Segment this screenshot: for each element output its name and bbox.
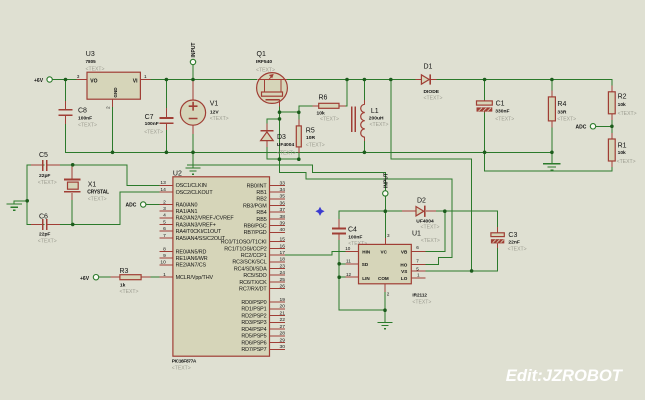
svg-text:CRYSTAL: CRYSTAL: [87, 190, 109, 196]
pin 6 RA4/T0CKI/C1OUT: [159, 226, 222, 235]
svg-text:16: 16: [280, 243, 286, 249]
svg-text:RD6/PSP6: RD6/PSP6: [241, 341, 266, 347]
pin 35 RB2: [256, 194, 285, 203]
svg-text:RB2: RB2: [256, 197, 266, 203]
wire C8 bottom to ground rail: [66, 124, 113, 152]
inductor L1 200uH: [352, 100, 389, 141]
svg-text:14: 14: [160, 187, 166, 193]
svg-text:D2: D2: [417, 198, 426, 205]
junction at (166.4,152.3): [165, 151, 169, 155]
svg-text:RC4/SDI/SDA: RC4/SDI/SDA: [234, 266, 267, 272]
svg-text:<TEXT>: <TEXT>: [320, 117, 339, 123]
pin 36 RB3/PGM: [243, 200, 285, 209]
svg-text:RB6/PGC: RB6/PGC: [244, 224, 267, 230]
junction at (390.8,79.5): [389, 78, 393, 82]
wire R4 top lead: [551, 80, 553, 97]
svg-text:LIN: LIN: [362, 276, 370, 281]
wire C7 bottom: [165, 129, 167, 152]
svg-text:<TEXT>: <TEXT>: [370, 122, 389, 128]
svg-text:<TEXT>: <TEXT>: [277, 151, 296, 157]
svg-text:+6V: +6V: [80, 276, 90, 282]
svg-text:RD1/PSP1: RD1/PSP1: [241, 307, 266, 313]
junction at (193,152.3): [191, 151, 195, 155]
svg-text:<TEXT>: <TEXT>: [38, 180, 57, 186]
pin 17 RC2/CCP1: [241, 250, 286, 259]
junction at (364.4,79.5): [363, 78, 367, 82]
wire +6V terminal to U3 VO: [53, 79, 77, 81]
capacitor C8 100nF: [59, 101, 97, 129]
junction at (339.2,277.2): [337, 275, 341, 279]
svg-text:12V: 12V: [210, 110, 219, 116]
crystal X1: [64, 167, 109, 203]
pin 3 VC stub: [385, 233, 390, 245]
red lead stubs R1: [611, 133, 613, 167]
capacitor C6 22pF: [31, 214, 60, 245]
svg-text:UF4004: UF4004: [416, 219, 434, 225]
svg-text:17: 17: [280, 250, 286, 256]
pin 40 RB7/PGD: [244, 227, 286, 236]
junction at (364.4,152.3): [363, 151, 367, 155]
capacitor C3 22nF electrolytic: [491, 227, 527, 253]
svg-text:37: 37: [280, 207, 286, 213]
svg-text:18: 18: [280, 257, 286, 263]
pin 21 RD2/PSP2: [241, 311, 285, 320]
svg-text:9: 9: [163, 253, 166, 259]
driver U1 IR2112: [359, 231, 440, 306]
pin 30 RD7/PSP7: [241, 344, 285, 353]
svg-text:C1: C1: [496, 101, 505, 108]
svg-text:6: 6: [416, 245, 419, 250]
pin 29 RD6/PSP6: [241, 338, 285, 347]
svg-text:26: 26: [280, 284, 286, 290]
capacitor C4 100nF: [332, 219, 367, 247]
svg-text:4: 4: [163, 213, 166, 219]
svg-text:C6: C6: [39, 214, 48, 221]
svg-text:<TEXT>: <TEXT>: [557, 116, 576, 122]
junction at (471.6,270.9): [470, 269, 474, 273]
pin 10 RE2/AN7/CS: [159, 260, 206, 269]
capacitor C5 22pF: [31, 152, 60, 186]
svg-text:<TEXT>: <TEXT>: [38, 238, 57, 244]
svg-text:100nF: 100nF: [145, 121, 159, 127]
svg-text:IRF540: IRF540: [256, 59, 272, 65]
pin 16 RC1/T1OSI/CCP2: [224, 243, 285, 252]
svg-text:<TEXT>: <TEXT>: [421, 238, 440, 244]
wire V1 top: [192, 80, 194, 95]
svg-text:UF4004: UF4004: [277, 142, 295, 148]
pin 5 VS stub: [411, 266, 425, 271]
wire switching node down: [391, 80, 472, 271]
junction at (385.3,211.2): [384, 209, 388, 213]
svg-text:23: 23: [280, 263, 286, 269]
svg-text:R6: R6: [319, 94, 328, 101]
wire R5 bottom lead: [298, 147, 300, 159]
svg-text:LO: LO: [401, 276, 408, 281]
capacitor C1 330nF electrolytic: [477, 100, 515, 122]
wire crystal bottom: [71, 199, 73, 224]
svg-text:HIN: HIN: [362, 249, 371, 254]
wire VCC line B: [187, 165, 385, 190]
svg-text:<TEXT>: <TEXT>: [306, 142, 325, 148]
pin 19 RD0/PSP0: [241, 297, 285, 306]
svg-text:U3: U3: [86, 51, 95, 58]
terminal +6V at R3: [80, 275, 99, 282]
wire C1 top lead: [484, 80, 486, 101]
svg-text:RB4: RB4: [256, 210, 266, 216]
wire VS to C3 bottom: [472, 247, 498, 271]
pin 5 RA3/AN3/VREF+: [159, 219, 215, 228]
svg-text:8: 8: [163, 246, 166, 252]
terminal ADC right: [576, 124, 596, 131]
svg-text:<TEXT>: <TEXT>: [421, 225, 440, 231]
junction at (444.8,211.2): [443, 209, 447, 213]
wire VS stub extension: [426, 270, 472, 272]
red lead stubs R6: [313, 105, 346, 107]
wire ground rail: [113, 151, 552, 153]
wire C4 bottom ground column: [339, 240, 385, 312]
svg-text:HO: HO: [400, 263, 407, 268]
resistor R6 10k: [317, 94, 340, 122]
svg-text:7: 7: [416, 258, 419, 263]
svg-text:<TEXT>: <TEXT>: [86, 66, 105, 72]
svg-text:2: 2: [163, 199, 166, 205]
junction at (484.6,152.3): [483, 151, 487, 155]
svg-text:100nF: 100nF: [78, 115, 92, 121]
svg-text:<TEXT>: <TEXT>: [210, 116, 229, 122]
wire D2 cathode to C3 top: [433, 211, 498, 227]
svg-text:5: 5: [163, 219, 166, 225]
svg-text:L1: L1: [371, 108, 379, 115]
svg-text:24: 24: [280, 270, 286, 276]
ground left of crystal: [7, 204, 23, 210]
svg-text:RE2/AN7/CS: RE2/AN7/CS: [176, 263, 207, 269]
svg-text:2: 2: [106, 106, 112, 109]
svg-text:<TEXT>: <TEXT>: [412, 299, 431, 305]
junction at (298.8,159.2): [297, 157, 301, 161]
wire U3 GND to ground rail: [112, 107, 114, 152]
pin 13 OSC1/CLKIN: [159, 180, 206, 189]
svg-text:RD7/PSP7: RD7/PSP7: [241, 347, 266, 353]
wire VCC node to C4: [339, 211, 385, 219]
svg-text:3: 3: [77, 74, 80, 80]
svg-text:ADC: ADC: [126, 203, 137, 209]
pin 34 RB1: [256, 187, 285, 196]
svg-text:20: 20: [280, 304, 286, 310]
pin 18 RC3/SCK/SCL: [232, 257, 285, 266]
svg-text:ADC: ADC: [576, 125, 587, 131]
svg-text:R2: R2: [618, 94, 627, 101]
wire C1 bottom lead: [484, 113, 486, 153]
svg-text:RB7/PGD: RB7/PGD: [244, 230, 267, 236]
svg-text:RD4/PSP4: RD4/PSP4: [241, 327, 266, 333]
diode D1 DIODE: [415, 64, 442, 102]
pin 37 RB4: [256, 207, 285, 216]
svg-text:33R: 33R: [557, 110, 566, 116]
svg-text:RC3/SCK/SCL: RC3/SCK/SCL: [232, 260, 266, 266]
pin 6 VB stub: [411, 245, 425, 251]
svg-text:1: 1: [144, 74, 147, 80]
wire D1 left: [287, 79, 420, 81]
terminal INPUT at U1: [383, 173, 390, 196]
microcontroller U2 PIC16F877A: [172, 170, 270, 371]
wire +6V to R3: [99, 276, 120, 278]
pin 15 RC0/T1OSO/T1CKI: [221, 237, 286, 246]
ground below V1: [186, 152, 201, 174]
svg-text:COM: COM: [378, 276, 389, 281]
junction at (298.8,112.3): [297, 111, 301, 115]
resistor R2 10k: [608, 92, 636, 117]
capacitor C7 100nF: [144, 108, 173, 136]
resistor R4 33R: [548, 97, 576, 122]
red lead stubs D3: [266, 124, 268, 148]
svg-text:C7: C7: [145, 114, 154, 121]
pin 1 MCLR/Vpp/THV: [159, 272, 213, 281]
svg-text:13: 13: [160, 180, 166, 186]
wire SD to ground column: [339, 263, 345, 265]
svg-text:5: 5: [416, 266, 419, 271]
svg-text:R4: R4: [557, 101, 566, 108]
svg-text:330nF: 330nF: [495, 108, 509, 114]
resistor R5 10R: [296, 126, 324, 148]
svg-text:6: 6: [163, 226, 166, 232]
svg-text:R5: R5: [306, 128, 315, 135]
svg-text:33: 33: [280, 180, 286, 186]
transistor Q1 IRF540: [256, 51, 287, 107]
svg-text:1: 1: [163, 272, 166, 278]
svg-text:C4: C4: [348, 227, 357, 234]
wire VCC node down to VC pin: [384, 211, 386, 238]
junction at (112.5,152.3): [111, 151, 115, 155]
terminal ADC left: [126, 202, 146, 209]
svg-text:RC0/T1OSO/T1CKI: RC0/T1OSO/T1CKI: [221, 240, 267, 246]
svg-text:<TEXT>: <TEXT>: [617, 159, 636, 165]
svg-text:30: 30: [280, 344, 286, 350]
ground below R4: [543, 152, 560, 170]
svg-text:VC: VC: [381, 249, 388, 254]
svg-text:INPUT: INPUT: [191, 43, 197, 58]
svg-text:21: 21: [280, 311, 286, 317]
svg-text:19: 19: [280, 297, 286, 303]
svg-text:Q1: Q1: [257, 51, 266, 58]
junction at (279.4,159.2): [278, 157, 282, 161]
svg-text:RA0/AN0: RA0/AN0: [176, 202, 198, 208]
junction at (551.9,152.3): [550, 151, 554, 155]
svg-text:<TEXT>: <TEXT>: [172, 365, 191, 371]
wire D2 node to VB: [426, 211, 445, 251]
pin 39 RB6/PGC: [244, 221, 286, 230]
diode D3 UF4004: [260, 127, 296, 157]
svg-text:U1: U1: [412, 231, 421, 238]
wire ground branch left: [14, 201, 27, 204]
svg-text:X1: X1: [88, 182, 97, 189]
svg-text:<TEXT>: <TEXT>: [256, 68, 275, 74]
svg-text:25: 25: [280, 277, 286, 283]
svg-text:<TEXT>: <TEXT>: [144, 130, 163, 136]
svg-text:RA1/AN1: RA1/AN1: [176, 209, 198, 215]
wire INPUT terminal to V1: [192, 65, 194, 80]
junction at (484.6,79.5): [483, 78, 487, 82]
svg-text:1k: 1k: [120, 283, 126, 289]
svg-text:DIODE: DIODE: [424, 89, 440, 95]
wire INPUT2 to VCC node: [384, 196, 386, 211]
wire R3 to MCLR: [141, 276, 159, 278]
pin 2 stub U3 GND: [106, 99, 113, 109]
svg-text:OSC2/CLKOUT: OSC2/CLKOUT: [176, 190, 214, 196]
junction at (347,79.5): [345, 78, 349, 82]
svg-text:RE0/AN5/RD: RE0/AN5/RD: [176, 249, 207, 255]
pin 7 RA5/AN4/SS/C2OUT: [159, 233, 225, 242]
junction at (279.5,112.2): [278, 110, 282, 114]
svg-text:RC7/RX/DT: RC7/RX/DT: [239, 287, 267, 293]
red lead stubs R4: [551, 91, 553, 128]
svg-text:D3: D3: [277, 134, 286, 141]
wire C5 left to C6 left: [27, 165, 44, 225]
junction at (65.5,79.5): [64, 78, 68, 82]
svg-text:22pF: 22pF: [39, 173, 50, 179]
svg-text:RD3/PSP3: RD3/PSP3: [241, 320, 266, 326]
pin 7 HO stub: [411, 258, 425, 264]
svg-text:INPUT: INPUT: [383, 173, 389, 188]
pin 20 RD1/PSP1: [241, 304, 285, 313]
pin 11 SD stub: [346, 259, 359, 264]
svg-text:VS: VS: [401, 269, 407, 274]
wire RC2/CCP1 to HIN: [285, 251, 346, 255]
pin 27 RD4/PSP4: [241, 324, 285, 333]
svg-text:29: 29: [280, 338, 286, 344]
svg-text:D1: D1: [424, 64, 433, 71]
svg-text:C5: C5: [39, 152, 48, 159]
junction at (72.7,224.4): [71, 223, 75, 227]
svg-text:VB: VB: [401, 249, 408, 254]
wire Q1 gate node: [280, 111, 299, 113]
svg-text:RB1: RB1: [256, 190, 266, 196]
junction at (385,310.2): [383, 308, 387, 312]
watermark Edit:JZROBOT: [506, 366, 624, 385]
pin 10 HIN stub: [345, 246, 358, 251]
wire gate to D3 cathode: [267, 119, 280, 127]
wire gate column: [279, 107, 281, 160]
junction at (72.7,164.8): [71, 163, 75, 167]
svg-text:200uH: 200uH: [369, 115, 384, 121]
svg-text:SD: SD: [362, 262, 369, 267]
terminal +6V top-left: [34, 77, 52, 84]
svg-text:<TEXT>: <TEXT>: [508, 247, 527, 253]
svg-text:3: 3: [163, 206, 166, 212]
wire LIN to ground column: [339, 276, 345, 278]
wire ADC right terminal: [596, 125, 612, 127]
pin 1 stub U3: [140, 74, 150, 80]
wire C5 right to OSC1: [48, 165, 159, 186]
regulator U3 7805: [86, 51, 141, 99]
pin 12 LIN stub: [346, 272, 359, 277]
wire ADC terminal to RA0: [146, 203, 159, 205]
svg-text:RC6/TX/CK: RC6/TX/CK: [239, 280, 267, 286]
red lead stubs R5: [298, 120, 300, 154]
wire R4 bottom lead: [551, 121, 553, 152]
svg-text:22pF: 22pF: [39, 231, 50, 237]
svg-text:15: 15: [280, 237, 286, 243]
wire C7 top: [165, 80, 167, 110]
svg-text:10R: 10R: [306, 135, 315, 141]
junction at (611.9,126.3): [610, 125, 614, 129]
svg-text:22nF: 22nF: [508, 240, 519, 246]
junction at (551.9,79.5): [550, 78, 554, 82]
svg-text:RB5: RB5: [256, 217, 266, 223]
junction at (27.2,200.8): [25, 199, 29, 203]
wire R5 top lead: [298, 112, 300, 126]
pin 14 OSC2/CLKOUT: [159, 187, 213, 196]
svg-text:<TEXT>: <TEXT>: [424, 95, 443, 101]
svg-text:<TEXT>: <TEXT>: [618, 111, 637, 117]
wire C1 node down to R1 return: [485, 152, 612, 171]
svg-text:V1: V1: [210, 101, 219, 108]
wire D1 right: [432, 79, 612, 81]
wire crystal top: [71, 165, 73, 168]
svg-text:1: 1: [417, 273, 420, 278]
pin 9 RE1/AN6/WR: [159, 253, 207, 262]
pin 8 RE0/AN5/RD: [159, 246, 206, 255]
svg-text:RC5/SDO: RC5/SDO: [243, 273, 266, 279]
svg-text:C3: C3: [508, 232, 517, 239]
terminal INPUT top: [190, 43, 197, 65]
svg-text:10: 10: [345, 246, 351, 251]
wire HO drive path steps: [280, 159, 453, 264]
svg-text:RE1/AN6/WR: RE1/AN6/WR: [176, 256, 208, 262]
pin 3 RA1/AN1: [159, 206, 197, 215]
pin 23 RC4/SDI/SDA: [234, 263, 285, 272]
svg-text:39: 39: [280, 221, 286, 227]
svg-text:MCLR/Vpp/THV: MCLR/Vpp/THV: [176, 275, 214, 281]
wire R2 bottom to ADC node: [611, 114, 613, 139]
svg-text:7: 7: [163, 233, 166, 239]
svg-text:Edit:JZROBOT: Edit:JZROBOT: [506, 366, 624, 385]
diode D2 UF4004: [402, 198, 439, 231]
wire U3 VI to Q1: [151, 79, 257, 81]
svg-text:OSC1/CLKIN: OSC1/CLKIN: [176, 183, 207, 189]
wire C8 branch: [65, 80, 67, 102]
svg-text:RA4/T0CKI/C1OUT: RA4/T0CKI/C1OUT: [176, 229, 222, 235]
svg-text:PIC16F877A: PIC16F877A: [172, 358, 197, 364]
svg-text:RB0/INT: RB0/INT: [247, 183, 268, 189]
wire Q1 source to rail right: [287, 80, 612, 92]
svg-text:27: 27: [280, 324, 286, 330]
svg-text:RB3/PGM: RB3/PGM: [243, 203, 267, 209]
wire R6 right lead to rail: [339, 80, 347, 106]
svg-text:<TEXT>: <TEXT>: [120, 289, 139, 295]
svg-text:RD2/PSP2: RD2/PSP2: [241, 314, 266, 320]
svg-text:GND: GND: [113, 87, 118, 98]
junction at (193,79.5): [191, 78, 195, 82]
junction at (279.5,118.9): [278, 117, 282, 121]
svg-text:36: 36: [280, 200, 286, 206]
svg-text:<TEXT>: <TEXT>: [88, 196, 107, 202]
svg-text:12: 12: [346, 272, 352, 277]
svg-text:RA3/AN3/VREF+: RA3/AN3/VREF+: [176, 222, 216, 228]
svg-text:VI: VI: [133, 78, 138, 84]
wire D3 anode down: [267, 144, 300, 160]
svg-text:35: 35: [280, 194, 286, 200]
svg-text:10k: 10k: [618, 150, 626, 156]
wire V1 bottom: [192, 132, 194, 153]
svg-text:38: 38: [280, 214, 286, 220]
svg-text:40: 40: [280, 227, 286, 233]
pin 22 RD3/PSP3: [241, 317, 285, 326]
resistor R1 10k: [608, 139, 635, 165]
svg-text:22: 22: [280, 317, 286, 323]
pin 25 RC6/TX/CK: [239, 277, 285, 286]
svg-text:7805: 7805: [86, 59, 97, 64]
svg-text:RA5/AN4/SS/C2OUT: RA5/AN4/SS/C2OUT: [176, 236, 226, 242]
